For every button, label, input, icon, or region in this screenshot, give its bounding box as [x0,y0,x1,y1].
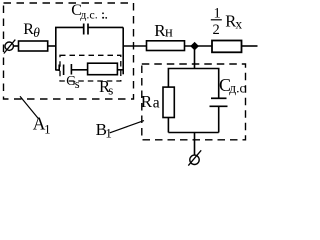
svg-text:д.с.: д.с. [80,7,97,21]
svg-text:x: x [235,16,242,31]
svg-text:2: 2 [213,22,220,38]
svg-text:s: s [75,77,80,91]
svg-text:1: 1 [105,125,112,140]
svg-text:θ: θ [33,25,40,40]
svg-text:s: s [108,83,113,98]
svg-text:1: 1 [44,122,51,137]
svg-text:а: а [153,94,160,111]
svg-text:1: 1 [214,5,221,21]
svg-text:R: R [141,92,153,111]
svg-text:н: н [165,24,173,40]
svg-text:д.с: д.с [229,80,245,95]
